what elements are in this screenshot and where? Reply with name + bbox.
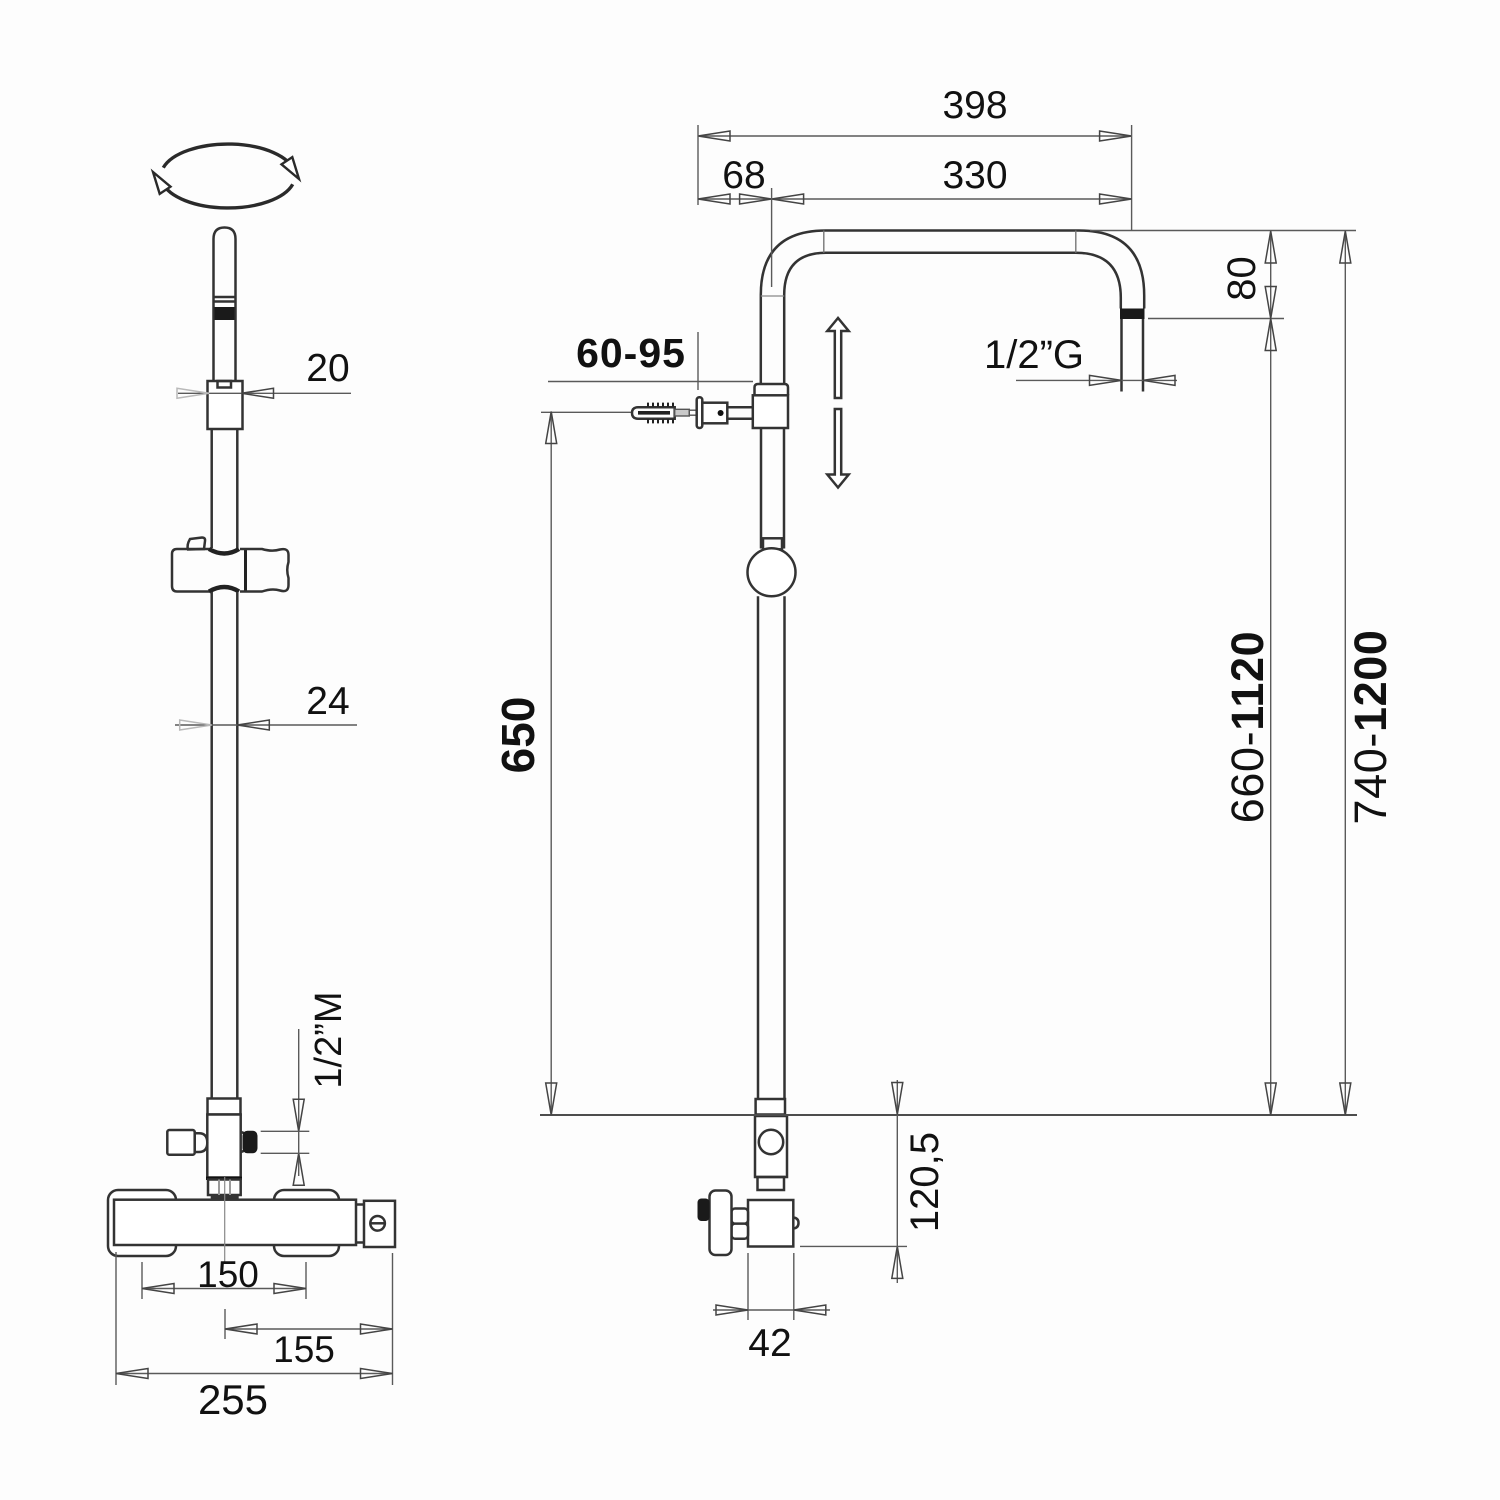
- label 60-95 tick: [697, 332, 699, 390]
- screw shaft: [675, 409, 690, 416]
- slider knob tab: [763, 538, 782, 549]
- dimension 330 left arrow: [772, 194, 804, 204]
- dimension 1/2"G right arrow: [1143, 375, 1175, 385]
- shower arm outer outline: [761, 231, 1144, 385]
- svg-text:80: 80: [1220, 256, 1264, 301]
- lower ferrule: [756, 1099, 785, 1115]
- mixer centerline: [224, 1177, 226, 1262]
- dimension 42 left arrow: [716, 1305, 748, 1315]
- dimension 1/2"G left arrow: [1090, 375, 1122, 385]
- svg-text:150: 150: [197, 1254, 259, 1295]
- riser pipe above circle: [760, 428, 763, 549]
- dimension 24 right arrow: [237, 720, 269, 730]
- adjust arrow lower: [827, 409, 848, 488]
- dimension 1/2"M leader top: [261, 1130, 310, 1132]
- dimension 42 right extension: [793, 1253, 795, 1320]
- hand shower handle (top pipe): [214, 228, 236, 382]
- dimension 398 left arrow: [698, 131, 730, 141]
- hand shower holder left block: [172, 549, 211, 592]
- dimension 155 line: [225, 1328, 393, 1330]
- dimension 660-1120 line: [1270, 319, 1272, 1116]
- arm right tangent tick: [1075, 231, 1077, 253]
- wall plug inner screw line: [638, 411, 670, 415]
- svg-text:20: 20: [306, 347, 349, 390]
- head connector nipple: [1120, 319, 1123, 392]
- mixer connector neck: [356, 1205, 364, 1243]
- dimension 660-1120 bottom arrow: [1265, 1083, 1276, 1115]
- svg-text:120,5: 120,5: [903, 1132, 947, 1232]
- dimension 398 line: [698, 135, 1132, 137]
- lower valve body: [755, 1116, 787, 1177]
- arm left joint line: [761, 295, 784, 297]
- dimension 20 right arrow: [242, 388, 274, 398]
- diverter collar: [208, 1099, 241, 1115]
- dimension 1/2"G line: [1016, 379, 1177, 381]
- dimension 24 leader: [175, 724, 357, 726]
- dimension 255 left extension: [115, 1252, 117, 1385]
- slide collar top: [755, 384, 789, 395]
- dimension 155 center tick: [224, 1309, 226, 1339]
- connector dark band: [211, 1195, 239, 1201]
- dimension 740-1200 bottom arrow: [1340, 1083, 1351, 1115]
- dimension 120,5 line: [896, 1080, 898, 1283]
- wall reference line: [540, 1114, 1357, 1116]
- dimension 330 center extension: [771, 188, 773, 287]
- dimension 660-1120 top arrow: [1265, 319, 1276, 351]
- dimension 24 left arrow (light): [180, 720, 212, 730]
- wall plug body: [632, 407, 675, 418]
- thread lines: [218, 1180, 220, 1196]
- handle black band: [215, 307, 235, 320]
- svg-text:60-95: 60-95: [576, 330, 686, 376]
- holder tab: [188, 538, 206, 550]
- svg-text:68: 68: [722, 154, 765, 197]
- rotation symbol: [153, 144, 299, 208]
- mixer right end block: [364, 1201, 395, 1247]
- wall plug hatch top: [648, 403, 673, 407]
- dimension 1/2"M vertical line: [298, 1029, 300, 1176]
- mixer block (side view): [748, 1200, 793, 1247]
- diverter left knob stem: [195, 1133, 208, 1152]
- dimension 120,5 bottom arrow: [892, 1246, 903, 1278]
- dimension 42 right arrow: [794, 1305, 826, 1315]
- bracket flange: [697, 397, 703, 428]
- slider clamp: [208, 381, 243, 429]
- dimension 740-1200 line: [1344, 231, 1346, 1115]
- svg-text:24: 24: [306, 680, 349, 723]
- dimension 255 line: [116, 1373, 393, 1375]
- dimension 155 right extension: [392, 1253, 394, 1385]
- dimension 150 right extension: [305, 1262, 307, 1299]
- diverter right outlet arc: [241, 1132, 249, 1152]
- wall anchor axis line: [541, 411, 632, 413]
- mixer right handle: [274, 1190, 339, 1256]
- svg-text:42: 42: [748, 1322, 791, 1365]
- dimension 255 right arrow: [361, 1369, 393, 1379]
- screw thin shaft: [689, 410, 696, 415]
- diverter body: [207, 1115, 240, 1178]
- dimension 120,5 top arrow: [892, 1083, 903, 1115]
- dimension 150 left arrow: [142, 1284, 174, 1294]
- dimension 255 left arrow: [116, 1369, 148, 1379]
- adjust arrow upper: [827, 318, 848, 398]
- threaded connector separator: [206, 1177, 242, 1180]
- dimension 1/2"M leader bottom: [261, 1152, 310, 1154]
- hex nut: [732, 1209, 749, 1224]
- holder divider: [244, 548, 247, 592]
- temp knob black button: [698, 1199, 710, 1222]
- lower valve circle: [759, 1130, 783, 1154]
- top reference extension line: [1090, 230, 1356, 232]
- dimension 155 left arrow: [225, 1324, 257, 1334]
- svg-text:330: 330: [942, 154, 1007, 197]
- svg-text:398: 398: [942, 84, 1007, 127]
- slide collar body: [753, 395, 788, 428]
- arm left tangent tick: [823, 231, 825, 253]
- svg-text:1/2”G: 1/2”G: [984, 333, 1084, 377]
- dimension 80 bottom arrow: [1265, 287, 1276, 319]
- arm head connector black band: [1120, 309, 1145, 320]
- dimension 740-1200 top arrow: [1340, 231, 1351, 263]
- bracket screw dot: [718, 410, 724, 416]
- dimension 650 top arrow: [546, 412, 557, 444]
- mixer main body: [114, 1200, 356, 1245]
- bracket block: [702, 403, 727, 424]
- riser pipe below circle: [757, 596, 760, 1099]
- temp knob slab: [710, 1191, 732, 1256]
- dimension 80 top arrow: [1265, 231, 1276, 263]
- threaded connector: [208, 1180, 241, 1196]
- dimension 398 right extension: [1131, 125, 1133, 230]
- dimension 398 left extension: [697, 125, 699, 205]
- pipe between holder and 24-dim: [210, 592, 213, 1099]
- dimension 20 left arrow (light): [177, 388, 209, 398]
- dimension 68 right arrow: [740, 194, 772, 204]
- dimension 150 left extension: [141, 1262, 143, 1299]
- svg-text:155: 155: [273, 1329, 335, 1370]
- svg-text:660-1120: 660-1120: [1222, 631, 1273, 824]
- handle ring lines: [214, 296, 236, 299]
- dimension 1/2"M top arrow: [293, 1099, 304, 1131]
- dimension 80 line: [1270, 231, 1272, 319]
- dimension 120,5 bottom leader: [800, 1245, 907, 1247]
- diverter left knob: [167, 1130, 194, 1155]
- dimension 150 line: [142, 1288, 306, 1290]
- dimension 42 left extension: [747, 1253, 749, 1320]
- diverter black knob: [243, 1131, 258, 1154]
- dimension 20 leader: [178, 392, 351, 394]
- bracket connector arm: [727, 407, 753, 418]
- holder wavy bottom bump: [209, 587, 239, 592]
- slider knob circle: [748, 548, 796, 596]
- dimension 68 left arrow: [698, 194, 730, 204]
- dimension 42 line: [713, 1309, 830, 1311]
- lower joint: [758, 1177, 785, 1190]
- dimension 155 right arrow: [361, 1324, 393, 1334]
- mixer block right screw bump: [793, 1218, 798, 1229]
- dimension 650 line: [550, 412, 552, 1116]
- mixer end screw: [370, 1216, 385, 1231]
- svg-text:255: 255: [198, 1376, 268, 1423]
- svg-text:740-1200: 740-1200: [1345, 630, 1396, 825]
- dimension 330/68 line: [698, 198, 1132, 200]
- clamp notch: [218, 381, 232, 388]
- holder wavy top dip: [209, 549, 239, 554]
- dimension 330 right arrow: [1100, 194, 1132, 204]
- svg-text:650: 650: [492, 697, 544, 774]
- dimension 398 right arrow: [1100, 131, 1132, 141]
- head level leader line: [1148, 318, 1284, 320]
- holder right block: [240, 549, 289, 592]
- label 60-95 leader: [548, 381, 753, 383]
- mixer left handle: [108, 1190, 176, 1256]
- svg-text:1/2”M: 1/2”M: [308, 991, 350, 1088]
- shower arm inner outline: [784, 253, 1121, 384]
- dimension 150 right arrow: [274, 1284, 306, 1294]
- pipe between clamp and holder: [210, 429, 213, 548]
- dimension 1/2"M bottom arrow: [293, 1153, 304, 1185]
- wall plug hatch bottom: [648, 419, 673, 423]
- dimension 650 bottom arrow: [546, 1083, 557, 1115]
